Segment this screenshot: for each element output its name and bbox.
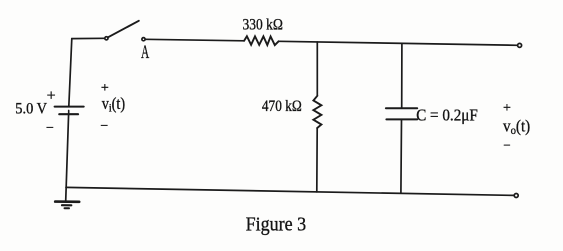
caption: Figure 3 <box>246 214 307 236</box>
svg-text:470 kΩ: 470 kΩ <box>262 98 302 115</box>
label: battery plus sign <box>47 87 56 104</box>
wire: capacitor to bottom rail <box>400 119 403 193</box>
switch S1 (open blade at node A) <box>105 21 145 41</box>
resistor R2 (470 kOhm, vertical zigzag) <box>313 96 321 128</box>
ground symbol <box>55 202 79 209</box>
wire: top-left horizontal (corner to switch pole) <box>72 37 105 39</box>
label: vo(t) minus sign <box>503 138 510 153</box>
svg-text:vi(t): vi(t) <box>102 94 125 115</box>
svg-text:A: A <box>141 43 150 63</box>
svg-text:330 kΩ: 330 kΩ <box>243 16 283 33</box>
wire: battery to ground <box>66 114 69 201</box>
label: vo(t) output voltage <box>503 116 530 137</box>
node A label <box>141 43 150 63</box>
label: C = 0.2uF value <box>416 105 478 124</box>
label: battery minus sign <box>46 121 54 136</box>
wire: left vertical (corner down to battery + plate) <box>69 39 72 107</box>
label: vi(t) input voltage <box>102 94 125 115</box>
svg-text:+: + <box>47 87 56 104</box>
label: 5.0 V value <box>15 100 47 117</box>
label: vi(t) plus sign <box>101 81 109 96</box>
label: 470 kOhm value <box>262 98 302 115</box>
svg-text:5.0 V: 5.0 V <box>15 100 47 117</box>
wire: R2 to bottom rail <box>316 128 318 192</box>
wire: top rail down to resistor R2 <box>316 42 318 96</box>
svg-text:−: − <box>46 121 54 136</box>
label: vi(t) minus sign <box>100 119 108 134</box>
terminal: top-right output (open circle) <box>518 43 522 47</box>
wire: top rail down to capacitor C <box>401 44 403 109</box>
wire: R1 to top-right terminal (top rail) <box>279 41 518 45</box>
svg-text:vo(t): vo(t) <box>503 116 530 137</box>
svg-text:−: − <box>100 119 108 134</box>
resistor R1 (330 kOhm, horizontal zigzag) <box>244 36 279 45</box>
svg-text:Figure 3: Figure 3 <box>246 214 307 236</box>
label: 330 kOhm value <box>243 16 283 33</box>
battery V1 (5.0 V source plates) <box>55 107 84 115</box>
svg-text:C = 0.2μF: C = 0.2μF <box>416 105 478 124</box>
wire: bottom rail (ground node to bottom-right terminal) <box>66 187 514 195</box>
wire: node A to resistor R1 <box>145 39 244 41</box>
svg-text:+: + <box>503 101 511 116</box>
capacitor C (two plates) <box>386 108 417 119</box>
label: vo(t) plus sign <box>503 101 511 116</box>
svg-text:−: − <box>503 138 510 153</box>
terminal: bottom-right output (open circle) <box>514 194 518 198</box>
